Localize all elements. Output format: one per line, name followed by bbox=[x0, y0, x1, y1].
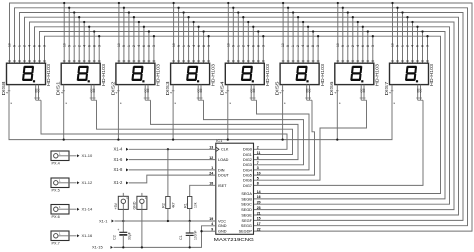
svg-text:10: 10 bbox=[336, 43, 340, 47]
svg-text:4k7: 4k7 bbox=[172, 202, 176, 208]
svg-text:10: 10 bbox=[227, 43, 231, 47]
svg-text:HD-H103: HD-H103 bbox=[156, 63, 161, 86]
svg-text:4: 4 bbox=[301, 45, 305, 47]
svg-text:GND: GND bbox=[133, 201, 137, 209]
svg-text:10: 10 bbox=[281, 43, 285, 47]
svg-text:10: 10 bbox=[391, 43, 395, 47]
svg-text:6: 6 bbox=[33, 45, 37, 47]
svg-text:SEGC: SEGC bbox=[241, 203, 252, 207]
svg-text:9: 9 bbox=[286, 45, 290, 47]
svg-text:9: 9 bbox=[177, 45, 181, 47]
svg-text:X1-15: X1-15 bbox=[92, 245, 103, 250]
svg-text:6: 6 bbox=[361, 45, 365, 47]
svg-text:3: 3 bbox=[97, 45, 101, 47]
svg-text:10: 10 bbox=[8, 43, 12, 47]
svg-text:HD-H103: HD-H103 bbox=[265, 63, 270, 86]
svg-text:2: 2 bbox=[187, 45, 191, 47]
svg-text:DIG0: DIG0 bbox=[243, 148, 252, 152]
svg-text:R1: R1 bbox=[184, 203, 188, 208]
svg-text:6: 6 bbox=[197, 45, 201, 47]
svg-text:CC: CC bbox=[146, 88, 150, 92]
svg-text:33µF: 33µF bbox=[127, 232, 131, 240]
svg-text:3: 3 bbox=[43, 45, 47, 47]
svg-text:HD-H103: HD-H103 bbox=[429, 63, 434, 86]
svg-text:4: 4 bbox=[137, 45, 141, 47]
svg-text:1: 1 bbox=[182, 45, 186, 47]
svg-text:1: 1 bbox=[237, 45, 241, 47]
svg-text:4: 4 bbox=[356, 45, 360, 47]
svg-text:6: 6 bbox=[87, 45, 91, 47]
svg-text:DOUT: DOUT bbox=[218, 174, 229, 178]
svg-text:C2: C2 bbox=[112, 235, 116, 240]
svg-text:2: 2 bbox=[351, 45, 355, 47]
svg-text:17: 17 bbox=[257, 222, 261, 226]
svg-text:23: 23 bbox=[257, 206, 261, 210]
svg-text:9: 9 bbox=[396, 45, 400, 47]
svg-text:100nF: 100nF bbox=[193, 230, 197, 240]
svg-text:10: 10 bbox=[172, 43, 176, 47]
svg-text:4: 4 bbox=[247, 45, 251, 47]
svg-text:1: 1 bbox=[72, 45, 76, 47]
svg-text:X1-8: X1-8 bbox=[114, 167, 124, 172]
svg-text:3: 3 bbox=[426, 45, 430, 47]
svg-text:3: 3 bbox=[257, 166, 259, 170]
svg-text:DIN: DIN bbox=[218, 168, 225, 172]
svg-text:PX.7: PX.7 bbox=[52, 241, 60, 245]
svg-text:7: 7 bbox=[257, 161, 259, 165]
svg-text:9: 9 bbox=[13, 45, 17, 47]
svg-text:CC: CC bbox=[92, 88, 96, 92]
svg-text:HD-H103: HD-H103 bbox=[46, 63, 51, 86]
svg-text:X1-1: X1-1 bbox=[99, 218, 108, 223]
svg-text:SEGE: SEGE bbox=[241, 213, 252, 217]
svg-text:CC: CC bbox=[308, 88, 312, 92]
svg-text:8: 8 bbox=[311, 45, 315, 47]
svg-text:3: 3 bbox=[262, 45, 266, 47]
svg-text:9: 9 bbox=[341, 45, 345, 47]
svg-text:+5V: +5V bbox=[114, 202, 118, 209]
svg-text:DIG5: DIG5 bbox=[243, 174, 252, 178]
svg-text:SEGB: SEGB bbox=[241, 197, 252, 201]
svg-text:2: 2 bbox=[406, 45, 410, 47]
svg-text:X1-14: X1-14 bbox=[82, 207, 93, 212]
svg-text:R2: R2 bbox=[162, 203, 166, 208]
svg-text:DIG7: DIG7 bbox=[243, 184, 252, 188]
svg-text:4: 4 bbox=[82, 45, 86, 47]
svg-text:8: 8 bbox=[421, 45, 425, 47]
svg-text:2: 2 bbox=[132, 45, 136, 47]
svg-text:CC: CC bbox=[37, 88, 41, 92]
svg-text:1: 1 bbox=[291, 45, 295, 47]
svg-text:CC: CC bbox=[419, 88, 423, 92]
svg-text:6: 6 bbox=[257, 156, 259, 160]
svg-text:HD-H103: HD-H103 bbox=[320, 63, 325, 86]
svg-text:VCC: VCC bbox=[218, 219, 226, 223]
svg-text:GND: GND bbox=[218, 224, 227, 228]
svg-text:SEGG: SEGG bbox=[241, 224, 252, 228]
svg-text:10: 10 bbox=[257, 171, 261, 175]
svg-text:6: 6 bbox=[252, 45, 256, 47]
svg-text:1: 1 bbox=[346, 45, 350, 47]
svg-text:4: 4 bbox=[28, 45, 32, 47]
svg-text:CLK: CLK bbox=[221, 148, 229, 152]
svg-text:PX.4: PX.4 bbox=[52, 161, 60, 165]
svg-text:CC: CC bbox=[362, 88, 366, 92]
svg-text:8: 8 bbox=[366, 45, 370, 47]
svg-text:3: 3 bbox=[207, 45, 211, 47]
svg-text:4: 4 bbox=[192, 45, 196, 47]
svg-text:DIG3: DIG3 bbox=[243, 163, 252, 167]
svg-text:2: 2 bbox=[23, 45, 27, 47]
svg-text:C1: C1 bbox=[179, 235, 183, 240]
svg-text:8: 8 bbox=[257, 45, 261, 47]
svg-text:DIG2: DIG2 bbox=[243, 158, 252, 162]
svg-text:3: 3 bbox=[152, 45, 156, 47]
svg-text:X1-10: X1-10 bbox=[82, 153, 93, 158]
svg-text:HD-H103: HD-H103 bbox=[375, 63, 380, 86]
svg-text:1: 1 bbox=[401, 45, 405, 47]
svg-text:3: 3 bbox=[316, 45, 320, 47]
svg-text:SEGDP: SEGDP bbox=[239, 230, 253, 234]
svg-text:HD-H103: HD-H103 bbox=[101, 63, 106, 86]
svg-text:15: 15 bbox=[257, 217, 261, 221]
svg-text:LOAD: LOAD bbox=[218, 158, 229, 162]
svg-text:8: 8 bbox=[38, 45, 42, 47]
svg-text:SEGD: SEGD bbox=[241, 208, 252, 212]
svg-text:8: 8 bbox=[92, 45, 96, 47]
svg-text:DIG1: DIG1 bbox=[243, 153, 252, 157]
svg-text:8: 8 bbox=[202, 45, 206, 47]
svg-text:8: 8 bbox=[147, 45, 151, 47]
svg-text:1: 1 bbox=[127, 45, 131, 47]
svg-text:2: 2 bbox=[296, 45, 300, 47]
svg-text:X1-2: X1-2 bbox=[114, 180, 124, 185]
svg-text:2: 2 bbox=[77, 45, 81, 47]
svg-text:CC: CC bbox=[252, 88, 256, 92]
svg-text:10: 10 bbox=[62, 43, 66, 47]
svg-text:4: 4 bbox=[411, 45, 415, 47]
svg-text:9: 9 bbox=[232, 45, 236, 47]
svg-text:10k: 10k bbox=[193, 202, 197, 208]
svg-text:SEGA: SEGA bbox=[241, 192, 252, 196]
svg-text:PX.6: PX.6 bbox=[52, 215, 60, 219]
svg-text:6: 6 bbox=[416, 45, 420, 47]
svg-text:6: 6 bbox=[306, 45, 310, 47]
svg-text:11: 11 bbox=[257, 151, 261, 155]
svg-text:X1-12: X1-12 bbox=[82, 180, 93, 185]
svg-text:PX.5: PX.5 bbox=[52, 188, 60, 192]
svg-text:22: 22 bbox=[257, 227, 261, 231]
svg-text:IC1: IC1 bbox=[216, 138, 223, 143]
svg-text:21: 21 bbox=[257, 211, 261, 215]
svg-text:9: 9 bbox=[67, 45, 71, 47]
svg-text:9: 9 bbox=[122, 45, 126, 47]
svg-text:DIG6: DIG6 bbox=[243, 179, 252, 183]
svg-text:8: 8 bbox=[257, 182, 259, 186]
svg-text:20: 20 bbox=[257, 201, 261, 205]
svg-text:16: 16 bbox=[257, 195, 261, 199]
svg-text:2: 2 bbox=[257, 146, 259, 150]
svg-text:2: 2 bbox=[242, 45, 246, 47]
svg-text:X1-6: X1-6 bbox=[114, 157, 124, 162]
svg-text:+: + bbox=[117, 228, 119, 232]
svg-text:3: 3 bbox=[371, 45, 375, 47]
svg-text:GND: GND bbox=[218, 230, 227, 234]
svg-text:14: 14 bbox=[257, 190, 261, 194]
svg-text:10: 10 bbox=[117, 43, 121, 47]
svg-text:5: 5 bbox=[257, 177, 259, 181]
svg-text:SEGF: SEGF bbox=[242, 219, 253, 223]
svg-text:ISET: ISET bbox=[218, 184, 227, 188]
svg-text:CC: CC bbox=[199, 88, 203, 92]
svg-text:HD-H103: HD-H103 bbox=[210, 63, 215, 86]
svg-text:MAX7219CNG: MAX7219CNG bbox=[214, 237, 255, 242]
svg-text:X1-4: X1-4 bbox=[114, 147, 124, 152]
svg-text:6: 6 bbox=[142, 45, 146, 47]
svg-text:1: 1 bbox=[18, 45, 22, 47]
svg-text:X1-16: X1-16 bbox=[82, 233, 93, 238]
svg-text:DIG4: DIG4 bbox=[243, 168, 252, 172]
